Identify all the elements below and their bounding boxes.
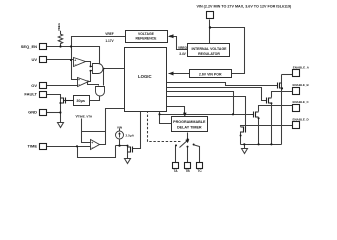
svg-text:30μs: 30μs [76, 99, 85, 103]
svg-text:2.6V VIN POR: 2.6V VIN POR [199, 73, 222, 77]
svg-text:TA: TA [173, 169, 178, 173]
svg-text:VTIME_VTH: VTIME_VTH [76, 114, 93, 118]
svg-text:VREG: VREG [178, 46, 188, 50]
svg-text:GND: GND [28, 110, 37, 115]
svg-text:VIN (2.2V MIN TO 27V MAX, 3.6V: VIN (2.2V MIN TO 27V MAX, 3.6V TO 12V FO… [197, 5, 293, 9]
svg-text:VREF: VREF [105, 32, 114, 36]
svg-text:ENABLE_C: ENABLE_C [293, 100, 310, 104]
svg-text:VIN: VIN [117, 125, 123, 129]
svg-text:ENABLE_D: ENABLE_D [293, 118, 310, 122]
svg-text:REFERENCE: REFERENCE [135, 37, 157, 41]
svg-text:VREG: VREG [57, 23, 61, 31]
svg-text:DELAY TIMER: DELAY TIMER [177, 125, 202, 129]
svg-text:ENABLE_A: ENABLE_A [293, 66, 310, 70]
svg-text:TIME: TIME [27, 144, 37, 149]
svg-text:TC: TC [197, 169, 202, 173]
svg-text:−: − [92, 146, 94, 150]
svg-text:SEQ_EN: SEQ_EN [21, 44, 37, 49]
svg-text:REGULATOR: REGULATOR [198, 52, 220, 56]
svg-text:ENABLE_B: ENABLE_B [293, 83, 310, 87]
svg-text:−: − [78, 83, 80, 87]
svg-text:+: + [91, 141, 93, 145]
svg-text:1.17V: 1.17V [105, 39, 114, 43]
svg-text:UV: UV [31, 57, 37, 62]
svg-text:+: + [78, 78, 80, 82]
svg-text:+: + [74, 58, 76, 62]
svg-text:2.5μA: 2.5μA [126, 133, 135, 137]
svg-text:INTERNAL VOLTAGE: INTERNAL VOLTAGE [192, 47, 228, 51]
svg-text:FAULT: FAULT [24, 92, 37, 97]
svg-text:TB: TB [185, 169, 190, 173]
svg-text:VOLTAGE: VOLTAGE [138, 32, 155, 36]
svg-text:3.4V: 3.4V [179, 52, 186, 56]
svg-text:PROGRAMMABLE: PROGRAMMABLE [173, 120, 206, 124]
svg-text:OV: OV [31, 83, 37, 88]
svg-text:−: − [75, 63, 77, 67]
svg-text:LOGIC: LOGIC [138, 74, 152, 79]
